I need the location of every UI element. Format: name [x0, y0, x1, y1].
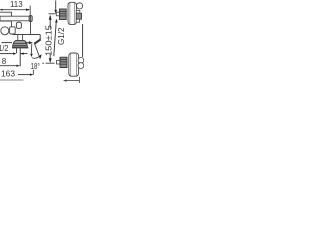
svg-text:113: 113: [10, 0, 23, 9]
svg-text:8: 8: [2, 57, 7, 66]
svg-text:150±15: 150±15: [43, 25, 53, 56]
svg-text:G1/2: G1/2: [56, 27, 66, 45]
svg-text:18°: 18°: [31, 61, 40, 71]
svg-text:1/2: 1/2: [0, 44, 9, 53]
svg-text:163: 163: [1, 69, 16, 78]
